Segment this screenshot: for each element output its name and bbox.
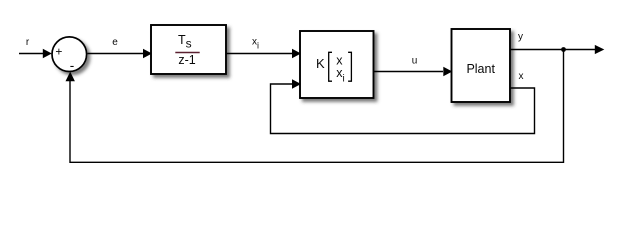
gain block K — [300, 31, 374, 98]
svg-text:e: e — [112, 37, 118, 48]
right bracket — [348, 52, 351, 81]
wire x_i — [226, 49, 301, 58]
outer feedback wire — [66, 50, 564, 163]
wire u — [374, 67, 453, 76]
wire input r — [19, 49, 52, 58]
svg-text:-: - — [70, 58, 75, 73]
svg-text:+: + — [55, 45, 62, 59]
junction dot — [561, 47, 566, 52]
state feedback wire x — [271, 79, 535, 133]
fraction bar — [175, 52, 199, 54]
integrator block Ts/(z-1) — [151, 25, 226, 74]
wire e — [87, 49, 152, 58]
wire y — [510, 45, 604, 54]
left bracket — [329, 52, 332, 81]
svg-text:K: K — [316, 56, 325, 71]
svg-text:r: r — [26, 37, 30, 48]
svg-text:y: y — [518, 32, 523, 43]
svg-text:xi: xi — [252, 37, 259, 51]
plant block — [452, 29, 511, 102]
svg-text:Plant: Plant — [466, 62, 495, 76]
svg-text:u: u — [412, 56, 418, 67]
summing junction — [52, 37, 87, 72]
svg-text:x: x — [519, 71, 524, 82]
svg-text:z-1: z-1 — [178, 53, 195, 67]
